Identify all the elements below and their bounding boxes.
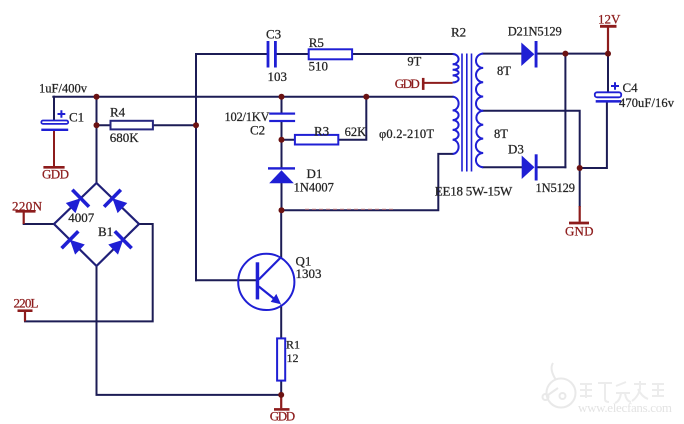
svg-text:R1: R1 bbox=[286, 338, 300, 352]
svg-text:4007: 4007 bbox=[68, 210, 95, 225]
svg-text:B1: B1 bbox=[98, 224, 113, 239]
svg-text:R3: R3 bbox=[314, 124, 329, 139]
svg-text:1uF/400v: 1uF/400v bbox=[39, 82, 88, 96]
svg-text:C1: C1 bbox=[69, 110, 84, 125]
svg-text:1303: 1303 bbox=[296, 266, 322, 281]
svg-text:D3: D3 bbox=[508, 142, 524, 157]
svg-text:103: 103 bbox=[268, 69, 288, 84]
svg-text:62K: 62K bbox=[345, 125, 367, 139]
svg-text:www.elecfans.com: www.elecfans.com bbox=[578, 400, 672, 415]
svg-text:8T: 8T bbox=[497, 64, 511, 78]
svg-text:C2: C2 bbox=[250, 123, 265, 138]
svg-text:8T: 8T bbox=[494, 127, 508, 141]
svg-text:12: 12 bbox=[287, 351, 299, 365]
svg-text:510: 510 bbox=[309, 59, 329, 74]
svg-text:12V: 12V bbox=[598, 12, 621, 27]
svg-text:9T: 9T bbox=[407, 55, 421, 69]
svg-text:GDD: GDD bbox=[42, 167, 69, 182]
svg-text:R2: R2 bbox=[451, 25, 466, 40]
svg-text:R4: R4 bbox=[110, 105, 126, 120]
svg-text:GDD: GDD bbox=[395, 76, 420, 91]
svg-text:GDD: GDD bbox=[270, 409, 296, 424]
svg-text:C4: C4 bbox=[623, 80, 639, 95]
svg-text:1N5129: 1N5129 bbox=[536, 181, 576, 195]
svg-text:D21N5129: D21N5129 bbox=[508, 25, 562, 39]
svg-text:GND: GND bbox=[565, 224, 594, 239]
svg-text:D1: D1 bbox=[307, 166, 323, 181]
svg-text:220N: 220N bbox=[12, 199, 43, 214]
svg-text:470uF/16v: 470uF/16v bbox=[619, 96, 675, 110]
svg-text:R5: R5 bbox=[309, 35, 324, 50]
svg-text:EE18 5W-15W: EE18 5W-15W bbox=[435, 183, 513, 198]
svg-text:220L: 220L bbox=[14, 296, 39, 311]
svg-text:1N4007: 1N4007 bbox=[294, 181, 334, 195]
svg-text:φ0.2-210T: φ0.2-210T bbox=[379, 127, 434, 141]
svg-text:C3: C3 bbox=[266, 26, 281, 41]
svg-text:680K: 680K bbox=[110, 130, 140, 145]
